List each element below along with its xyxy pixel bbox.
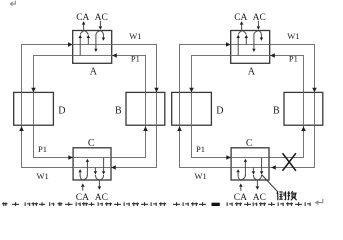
node A drop from P1 (right) bbox=[237, 38, 239, 56]
svg-text:P1: P1 bbox=[38, 144, 47, 154]
node C box (left) bbox=[73, 148, 111, 180]
wire P1 through A (left) bbox=[73, 55, 112, 57]
node B box (right) bbox=[284, 92, 323, 125]
wire W1 through A (right) bbox=[231, 44, 270, 46]
signal CA input arrow below C (right) bbox=[240, 187, 242, 191]
arrow W1 into A (right) bbox=[226, 42, 231, 47]
svg-text:CA: CA bbox=[76, 193, 89, 203]
node A add split curves (left) bbox=[96, 31, 103, 35]
svg-text:B: B bbox=[273, 106, 280, 117]
node C drop from P1 (left) bbox=[103, 158, 105, 172]
node A add split curves (right) bbox=[254, 31, 261, 35]
node C add to W1 (right) bbox=[237, 172, 239, 176]
leader line to switchover label (right) bbox=[262, 175, 278, 192]
node D box (left) bbox=[14, 92, 54, 125]
pilcrow return mark bottom-right bbox=[316, 199, 323, 205]
arrow P1 into B (right) bbox=[301, 126, 306, 131]
node C add split curves (right) bbox=[238, 175, 245, 180]
arrow P1 into D (right) bbox=[189, 88, 194, 93]
svg-text:CA: CA bbox=[234, 193, 247, 203]
svg-text:AC: AC bbox=[253, 193, 266, 203]
node B box (left) bbox=[126, 92, 165, 125]
node C drop from P1 (right) bbox=[261, 158, 263, 172]
node C add to P1 (left) bbox=[86, 162, 88, 176]
wire P1 through C (left) bbox=[73, 157, 111, 159]
arrow W1 into A (left) bbox=[68, 42, 73, 47]
wire W1 through D (right) bbox=[179, 92, 181, 125]
wire W1 through D (left) bbox=[21, 92, 23, 125]
node A box (right) bbox=[231, 31, 270, 64]
svg-text:D: D bbox=[58, 106, 65, 117]
node C drop from W1 (right) bbox=[252, 168, 254, 172]
signal AC output arrow below C (left) bbox=[98, 180, 100, 186]
node A add to W1 (right) bbox=[260, 34, 262, 38]
svg-text:A: A bbox=[90, 67, 98, 78]
signal CA input arrow below C (left) bbox=[82, 187, 84, 191]
caption text tops (cut off) bbox=[2, 202, 311, 206]
svg-text:W1: W1 bbox=[129, 31, 141, 41]
arrow P1 into D (left) bbox=[31, 88, 36, 93]
wire P1 through D (right) bbox=[191, 92, 193, 125]
svg-text:W1: W1 bbox=[287, 31, 299, 41]
node C add split curves (left) bbox=[80, 175, 87, 180]
arrow P1 into C (left) bbox=[68, 155, 73, 160]
node A drop from P1 (left) bbox=[79, 38, 81, 56]
arrow P1 into B (left) bbox=[143, 126, 148, 131]
svg-text:AC: AC bbox=[95, 193, 108, 203]
pilcrow return mark top-left bbox=[10, 1, 15, 6]
node C drop merge curves (right) bbox=[253, 175, 261, 180]
arrow W1 into B (right) bbox=[312, 88, 317, 93]
svg-text:D: D bbox=[216, 106, 223, 117]
wire W1 through A (left) bbox=[73, 44, 112, 46]
caption bold bar bbox=[212, 203, 220, 206]
arrow P1 into C (right) bbox=[226, 155, 231, 160]
wire P1 through D (left) bbox=[33, 92, 35, 125]
signal AC input arrow above A (left) bbox=[99, 21, 101, 27]
svg-text:AC: AC bbox=[95, 13, 108, 23]
wire W1 through C (right) bbox=[231, 167, 269, 169]
node A add to P1 (left) bbox=[95, 34, 97, 49]
svg-text:CA: CA bbox=[76, 13, 89, 23]
wire W1 outer ring (right) bbox=[180, 45, 315, 168]
wire P1 inner ring (right) bbox=[192, 56, 304, 158]
wire P1 through B (left) bbox=[145, 92, 147, 125]
arrow W1 into C (right) bbox=[271, 165, 276, 170]
node A drop merge curves (left) bbox=[80, 31, 88, 35]
svg-text:P1: P1 bbox=[196, 144, 205, 154]
arrow W1 into C (left) bbox=[111, 165, 116, 170]
wire W1 outer ring (left) bbox=[22, 45, 157, 168]
svg-text:P1: P1 bbox=[131, 54, 140, 64]
svg-text:CA: CA bbox=[234, 13, 247, 23]
wire W1 through C (left) bbox=[73, 167, 111, 169]
signal AC input arrow above A (right) bbox=[257, 21, 259, 27]
node A add to W1 (left) bbox=[102, 34, 104, 38]
arrow P1 into A (right) bbox=[270, 53, 275, 58]
node A drop merge curves (right) bbox=[238, 31, 246, 35]
signal CA output arrow above A (left) bbox=[83, 24, 85, 31]
wire P1 inner ring (left) bbox=[34, 56, 146, 158]
node D box (right) bbox=[172, 92, 212, 125]
svg-text:W1: W1 bbox=[195, 171, 207, 181]
svg-text:C: C bbox=[246, 138, 253, 149]
svg-text:P1: P1 bbox=[289, 54, 298, 64]
svg-text:A: A bbox=[248, 67, 256, 78]
wire W1 through B (left) bbox=[156, 92, 158, 125]
svg-text:AC: AC bbox=[253, 13, 266, 23]
node A drop from W1 (left) bbox=[87, 38, 89, 45]
fiber break X between C and B (right) bbox=[283, 153, 296, 171]
wire P1 through C (right) bbox=[231, 157, 269, 159]
svg-text:W1: W1 bbox=[37, 171, 49, 181]
label switchover dao-huan (right) bbox=[277, 191, 297, 200]
signal AC output arrow below C (right) bbox=[256, 180, 258, 186]
wire P1 through A (right) bbox=[231, 55, 270, 57]
arrow W1 into B (left) bbox=[154, 88, 159, 93]
node C add to W1 (left) bbox=[79, 172, 81, 176]
node A drop from W1 (right) bbox=[245, 38, 247, 45]
node C box (right) bbox=[231, 148, 269, 180]
svg-text:B: B bbox=[115, 106, 122, 117]
wire W1 through B (right) bbox=[314, 92, 316, 125]
node A add to P1 (right) bbox=[253, 34, 255, 49]
arrow W1 into D (left) bbox=[19, 126, 24, 131]
arrow P1 into A (left) bbox=[112, 53, 117, 58]
node C drop merge curves (left) bbox=[95, 175, 103, 180]
signal CA output arrow above A (right) bbox=[241, 24, 243, 31]
svg-text:C: C bbox=[88, 138, 95, 149]
wire P1 through B (right) bbox=[303, 92, 305, 125]
arrow W1 into D (right) bbox=[177, 126, 182, 131]
node C add to P1 (right) bbox=[244, 162, 246, 176]
node C drop from W1 (left) bbox=[94, 168, 96, 172]
node A box (left) bbox=[73, 31, 112, 64]
